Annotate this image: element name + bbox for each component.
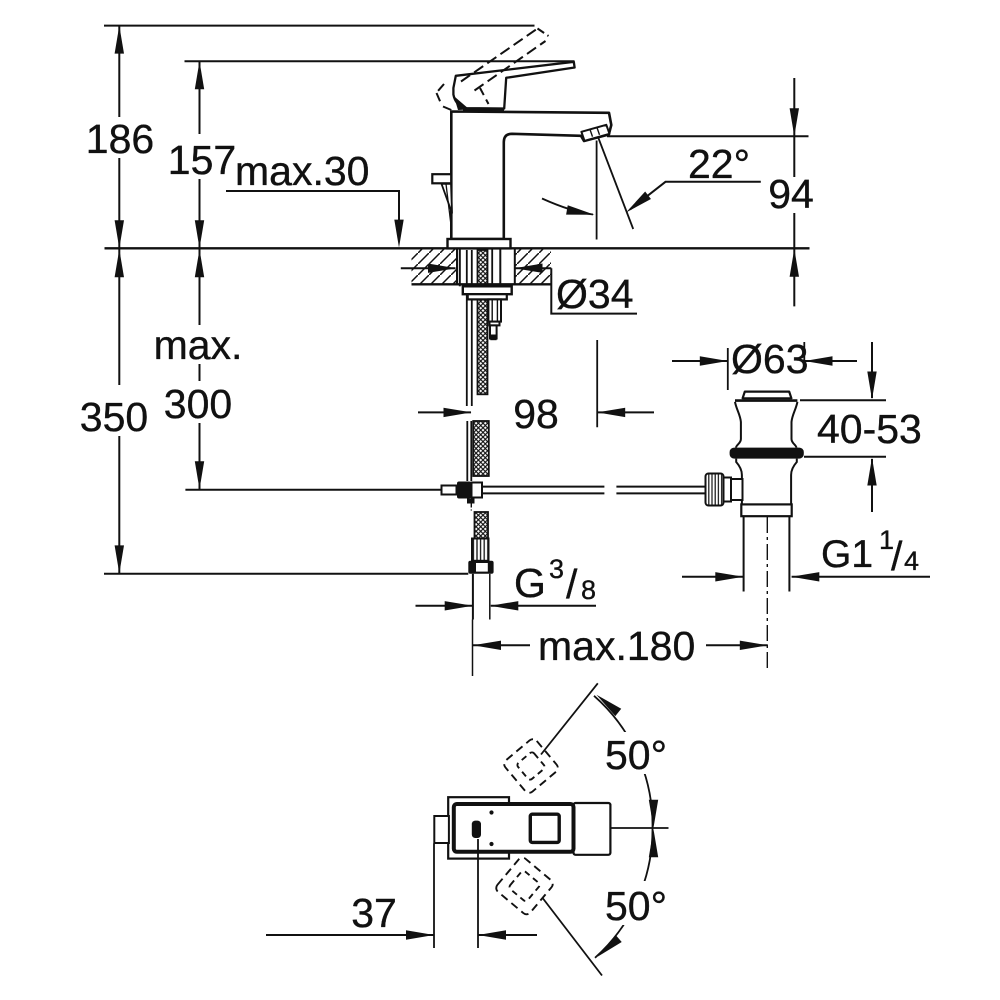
pop-up knob tab on body — [432, 174, 451, 183]
spout stream vertical line — [596, 141, 598, 240]
svg-text:37: 37 — [351, 890, 397, 936]
mounting nut — [463, 286, 512, 294]
rod junction block — [457, 482, 471, 499]
dimension Ø63 — [672, 360, 727, 362]
dimension max300 vertical line — [199, 249, 201, 489]
svg-text:186: 186 — [86, 116, 154, 162]
handle lever (dashed raised position) — [437, 29, 549, 111]
svg-text:4: 4 — [904, 546, 919, 576]
extension line below nipple — [472, 620, 474, 677]
svg-text:157: 157 — [168, 137, 236, 183]
dimension 98 — [418, 411, 471, 413]
reference line 157 level — [185, 60, 575, 62]
svg-text:3: 3 — [549, 554, 564, 584]
svg-text:50°: 50° — [605, 732, 667, 778]
svg-text:40-53: 40-53 — [817, 406, 922, 452]
dimension Ø34 — [401, 267, 456, 269]
drain waste plug cap — [743, 392, 792, 399]
main dimension arrows — [115, 26, 124, 54]
svg-text:94: 94 — [768, 171, 814, 217]
50 deg upper arc — [594, 696, 653, 829]
98 right extension line — [596, 340, 598, 427]
top view cartridge square — [530, 814, 559, 842]
hose end nut G3/8 — [468, 561, 493, 574]
dashed square lower outer — [494, 856, 555, 917]
drain flange bell sides — [735, 402, 741, 448]
50 deg lower extension line — [543, 899, 602, 976]
rod junction left stub — [442, 486, 457, 495]
dimension 186 vertical line — [118, 26, 120, 249]
flexible hose lowest segment — [475, 512, 489, 539]
drain flange top — [735, 399, 797, 402]
drain body below gasket — [736, 459, 742, 505]
svg-text:max.180: max.180 — [538, 623, 695, 669]
reference line top (186 level) — [104, 25, 535, 27]
tailpipe coupling ring — [741, 504, 791, 516]
pop-up rod reference line — [185, 489, 442, 491]
svg-text:50°: 50° — [605, 883, 667, 929]
mounting hole edges — [456, 249, 458, 284]
dashed square upper inner — [516, 751, 546, 781]
50 deg lower arc — [595, 829, 653, 958]
dimension 157 vertical line — [199, 61, 201, 248]
dimension texts — [80, 116, 922, 936]
50 deg upper extension line — [541, 683, 598, 754]
svg-text:G: G — [514, 560, 546, 606]
drain gasket — [730, 448, 804, 459]
faucet body outline — [451, 112, 611, 240]
svg-text:max.30: max.30 — [235, 148, 369, 194]
svg-text:Ø63: Ø63 — [731, 336, 809, 382]
svg-text:350: 350 — [80, 394, 148, 440]
rod junction right piece — [472, 483, 483, 498]
bottom reference line (350 level) — [104, 573, 468, 575]
flexible hose middle segment — [473, 421, 489, 476]
top view lever tip rectangle — [574, 803, 611, 855]
horizontal pop-up rod — [482, 486, 604, 488]
top view centerline — [612, 827, 669, 829]
dimension 40-53 — [800, 399, 886, 401]
dimension 94 vertical line — [793, 78, 795, 306]
spout height reference line (94 top) — [607, 135, 809, 137]
shank lower tube — [488, 299, 501, 321]
top view handle thick rectangle — [454, 804, 574, 852]
counter hatching left of hole — [412, 250, 457, 284]
counter hatching right of hole — [515, 250, 551, 284]
22 deg leader — [630, 182, 761, 210]
svg-text:300: 300 — [164, 381, 232, 427]
svg-text:G1: G1 — [821, 533, 873, 576]
svg-text:8: 8 — [581, 575, 596, 605]
counter top line — [105, 247, 810, 249]
pop-up rod linkage wedge — [442, 184, 453, 213]
dimension 350 vertical line — [118, 249, 120, 573]
svg-text:/: / — [891, 533, 903, 579]
handle lever (solid position) — [453, 62, 574, 109]
hose crimp collar — [472, 539, 489, 561]
dimension 37 — [433, 844, 435, 949]
top view spout tab — [434, 816, 449, 843]
22 deg arc arrow — [542, 199, 593, 215]
dimension G3/8 — [416, 605, 473, 607]
body top line under handle — [463, 108, 504, 111]
knob connector pieces — [724, 478, 732, 502]
svg-text:/: / — [566, 561, 578, 607]
G3/8 nipple tube — [472, 574, 474, 620]
top view dots — [489, 810, 493, 814]
spout stream angled line (22deg) — [598, 138, 633, 230]
max30 leader — [226, 191, 399, 222]
white background boxes for texts on lines — [75, 117, 820, 925]
tailpipe walls — [743, 516, 745, 591]
pop-up rod lower segment — [466, 421, 468, 481]
dash-dot below junction — [470, 504, 472, 513]
top view outer body — [448, 797, 509, 858]
svg-text:22°: 22° — [688, 141, 750, 187]
counter bottom line — [412, 283, 552, 285]
svg-text:Ø34: Ø34 — [556, 271, 634, 317]
dimension max180 — [473, 644, 530, 646]
flexible hose upper segment — [478, 250, 488, 394]
dashed square lower inner — [508, 870, 540, 902]
dashed square upper outer — [502, 737, 560, 795]
faucet base plate — [448, 239, 511, 248]
svg-text:98: 98 — [513, 391, 559, 437]
top view pivot blob — [472, 821, 481, 838]
rod junction lower tab — [467, 499, 475, 504]
svg-text:max.: max. — [154, 322, 243, 368]
counter cut-out step for Ø34 label — [551, 268, 637, 313]
drain knurled knob — [706, 474, 724, 506]
threaded shank walls — [459, 249, 461, 286]
pop-up rod upper segment — [466, 250, 468, 406]
drain centerline — [766, 517, 768, 672]
dimension G1 1/4 — [682, 576, 743, 578]
spout aerator tip — [581, 125, 609, 141]
handle base shadow wedge — [454, 96, 470, 110]
